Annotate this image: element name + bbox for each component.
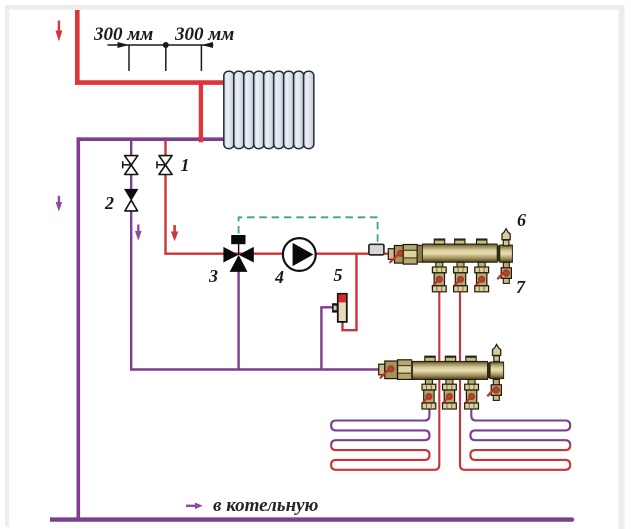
svg-text:5: 5: [334, 265, 343, 285]
svg-text:1: 1: [181, 155, 190, 175]
svg-text:300 мм: 300 мм: [174, 24, 234, 45]
svg-text:3: 3: [208, 266, 218, 286]
svg-text:7: 7: [516, 277, 526, 297]
svg-text:6: 6: [517, 210, 526, 230]
svg-text:300 мм: 300 мм: [93, 24, 153, 45]
svg-text:2: 2: [104, 193, 114, 213]
svg-text:4: 4: [274, 267, 284, 287]
svg-text:в котельную: в котельную: [213, 495, 319, 516]
